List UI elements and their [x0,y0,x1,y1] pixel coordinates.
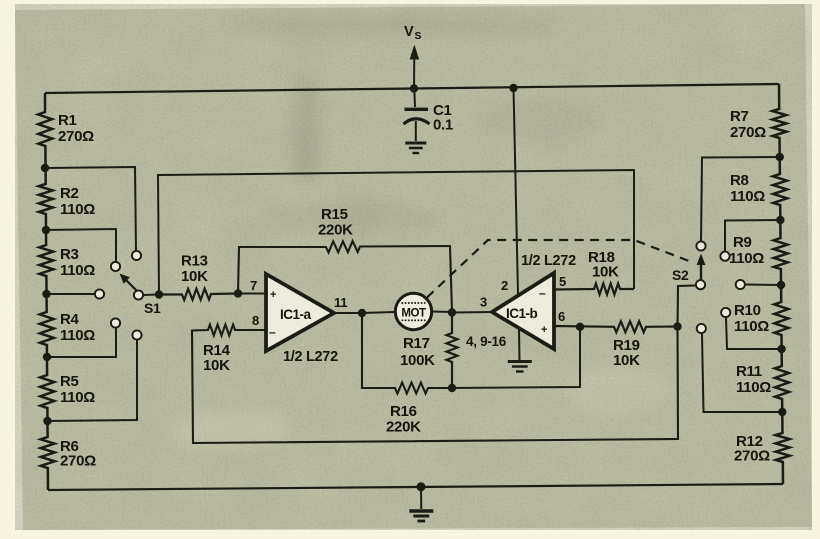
svg-text:110Ω: 110Ω [60,389,95,406]
op-amp IC1-b minus sign [539,286,546,300]
wire R7-R8 junction to S2 top contact [701,157,780,241]
node pin2 rail junction [509,84,517,92]
left bus with resistors R1-R6 [38,93,55,490]
svg-text:S2: S2 [672,267,689,283]
svg-text:8: 8 [252,313,259,328]
pin 6 label [558,309,565,324]
resistor R4 label [60,311,95,344]
motor brush hatch top [402,302,426,304]
node R7-R8 junction [776,153,784,161]
op-amp IC1-a plus sign [270,289,276,301]
node IC1-a output junction [358,309,366,317]
svg-text:270Ω: 270Ω [730,124,766,141]
wire R8-R9 junction to S2 upper contact [725,220,780,251]
wire R16 junction to pin6 riser [452,327,580,388]
node R5-R6 junction [43,417,51,425]
resistor R14 label [203,342,231,374]
wire R5-R6 junction to S1 bottom contact [48,340,138,421]
wire top supply rail [45,84,779,93]
node IC1-a noninverting input junction [234,289,242,297]
svg-text:110Ω: 110Ω [734,318,769,335]
svg-text:270Ω: 270Ω [60,453,96,470]
pin 7 label [250,278,257,293]
svg-text:110Ω: 110Ω [730,188,765,205]
resistor R19 label [613,337,640,369]
svg-text:4, 9-16: 4, 9-16 [466,334,507,349]
svg-text:270Ω: 270Ω [58,128,94,145]
wire R2-R3 junction to S1 upper contact [46,229,116,262]
svg-text:+: + [270,289,276,301]
wire supply junction to C1 [413,89,416,108]
svg-text:R13: R13 [181,253,208,270]
svg-text:R9: R9 [733,234,752,251]
resistor R15 feedback path [238,241,452,312]
svg-text:110Ω: 110Ω [60,327,95,344]
svg-text:R16: R16 [390,403,417,420]
svg-text:R5: R5 [60,373,79,390]
node R3-R4 junction [42,290,50,298]
wire S1 riser and middle rail to R18 right end [158,170,634,295]
svg-text:1/2 L272: 1/2 L272 [283,349,338,365]
C1 ground symbol [405,143,426,153]
capacitor C1 label [433,102,453,134]
node R10-R11 junction [777,345,785,353]
switch S1 bottom contact [132,330,141,339]
resistor R15 label [318,206,353,239]
node R4-R5 junction [43,353,51,361]
resistor R13 label [181,253,208,286]
svg-text:100K: 100K [400,352,435,369]
switch S2 right contact [736,280,745,289]
wire R13 junction to IC1-a + input [238,293,266,295]
node motor-right junction [448,308,456,316]
wire output junction to motor [362,312,394,313]
op-amp IC1-b type label [521,253,576,269]
wire IC1-a output [334,312,362,314]
svg-text:270Ω: 270Ω [734,448,770,465]
node R9-R10 junction [777,281,785,289]
switch S2 upper-right contact [720,252,729,261]
svg-text:10K: 10K [203,357,230,374]
svg-text:6: 6 [558,309,565,324]
svg-text:MOT: MOT [401,308,426,320]
motor MOT label [401,308,426,320]
node R8-R9 junction [776,216,784,224]
wire C1 to ground [415,121,417,141]
wire S1 pole to node [144,294,160,297]
wire R3-R4 junction to S1 left contact [47,293,95,295]
resistor R5 label [60,373,95,406]
svg-text:S: S [415,30,422,42]
node pin6 junction [576,323,584,331]
resistor R1 label [58,112,94,145]
op-amp IC1-b name [506,306,538,321]
capacitor C1 top plate [405,108,429,111]
node R11-R12 junction [778,408,786,416]
wire motor to node [432,311,452,314]
resistor R16 label [386,403,421,436]
switch S2 top contact [696,241,705,250]
resistor R11 label [736,363,771,396]
switch S1 top contact [132,251,141,260]
svg-text:1/2 L272: 1/2 L272 [521,253,576,269]
pin 8 label [252,313,259,328]
op-amp IC1-a type label [283,349,338,365]
wire R1-R2 junction to S1 top contact [45,167,136,251]
resistor R19 path [554,321,678,332]
svg-text:–: – [539,286,546,300]
node bottom rail ground junction [417,482,426,491]
node S1 output junction [155,290,163,298]
bottom ground stem [420,487,422,509]
svg-text:10K: 10K [181,268,208,285]
pin 3 label [480,295,487,310]
resistor R3 label [60,246,95,279]
svg-text:11: 11 [334,295,347,310]
switch S2 bottom contact [697,324,706,333]
motor brush hatch bottom [402,319,426,321]
pin 2 label [501,278,508,293]
resistor R12 label [734,433,770,465]
svg-text:10K: 10K [592,264,619,281]
wire R10-R11 junction to S2 lower contact [726,318,782,350]
switch S1 label [144,300,161,316]
op-amp IC1-b plus sign [541,324,547,336]
svg-text:IC1-b: IC1-b [506,306,538,321]
op-amp IC1-a minus sign [269,325,276,339]
bottom ground symbol [409,511,433,521]
resistor R7 label [730,108,766,141]
svg-text:–: – [269,325,276,339]
wire node to IC1-b input [452,311,492,314]
IC1-b ground pins label [466,334,507,349]
svg-text:110Ω: 110Ω [736,379,771,396]
dashed link motor to S2 [427,240,693,298]
svg-text:S1: S1 [144,300,161,316]
node R2-R3 junction [42,226,50,234]
supply label Vs [404,24,422,42]
svg-text:R2: R2 [60,185,79,202]
svg-text:R3: R3 [60,246,79,263]
resistor R2 label [60,185,95,218]
svg-text:+: + [541,324,547,336]
svg-text:R11: R11 [736,363,762,380]
node R16-R17 junction [448,384,456,392]
resistor R18 label [588,249,619,281]
svg-text:2: 2 [501,278,508,293]
resistor R10 label [734,302,769,335]
svg-text:5: 5 [559,274,566,289]
resistor R14 and bottom feedback loop to S2 pole [192,286,695,444]
op-amp IC1-a name [280,307,312,322]
node R19-S2 junction [673,322,681,330]
svg-text:R4: R4 [60,311,80,328]
capacitor C1 bottom plate [404,119,430,124]
wire supply arrow stem [413,57,415,89]
switch S2 lower-right contact [721,308,730,317]
resistor R16 path [362,313,452,394]
node R1-R2 junction [41,164,49,172]
svg-text:R15: R15 [321,206,348,223]
resistor R17 label [400,335,435,369]
wire R4-R5 junction to S1 lower contact [47,328,116,358]
svg-text:3: 3 [480,295,487,310]
wire R11-R12 junction to S2 bottom contact [702,334,782,413]
resistor R8 label [730,172,765,205]
switch S2 pole contact [696,280,705,289]
wire bottom ground rail [48,484,783,490]
switch S1 pole contact [134,290,143,299]
pin 2 wire from supply rail [514,88,519,295]
resistor R9 label [729,234,764,267]
wire R9-R10 junction to S2 right contact [745,284,781,287]
node supply junction [410,84,418,92]
right bus with resistors R7-R12 [772,84,789,484]
switch S1 upper-left contact [111,262,120,271]
op-amp IC1-b [492,273,554,349]
svg-text:110Ω: 110Ω [60,201,95,218]
svg-text:R8: R8 [730,172,749,189]
svg-text:V: V [404,24,414,40]
svg-text:R7: R7 [730,108,749,125]
pin 5 label [559,274,566,289]
svg-text:10K: 10K [613,352,640,369]
switch S1 wiper arrow [120,274,138,292]
svg-text:0.1: 0.1 [433,117,453,134]
svg-text:R17: R17 [403,335,430,352]
motor MOT [395,293,431,329]
IC1-b ground symbol [508,362,532,372]
svg-text:R10: R10 [734,302,761,319]
svg-text:110Ω: 110Ω [60,262,95,279]
svg-text:IC1-a: IC1-a [280,307,312,322]
resistor R6 label [60,438,96,470]
switch S2 label [672,267,689,283]
resistor R18 [554,284,634,295]
supply arrow head [410,45,420,60]
svg-text:7: 7 [250,278,257,293]
switch S1 lower-left contact [111,318,120,327]
switch S2 wiper arrow [697,254,706,281]
op-amp IC1-a [266,274,334,351]
svg-text:R1: R1 [58,112,77,129]
resistor R17 [447,313,458,389]
svg-text:220K: 220K [386,419,421,436]
IC1-b ground stem [518,329,521,360]
svg-text:220K: 220K [318,222,353,239]
switch S1 left contact [95,289,104,298]
scan smudges [170,16,670,450]
pin 11 label [334,295,347,310]
resistor R13 [159,289,238,300]
svg-text:110Ω: 110Ω [729,250,764,267]
